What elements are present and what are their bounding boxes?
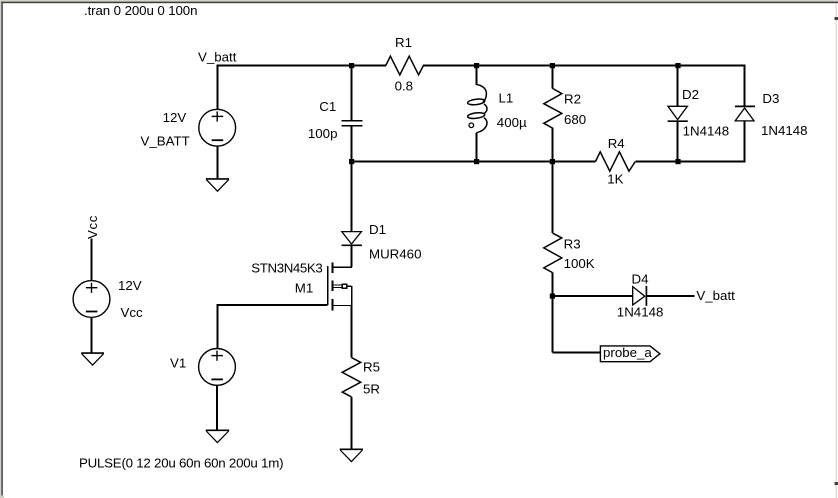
- svg-text:D1: D1: [369, 222, 386, 237]
- diode D1: [342, 162, 362, 268]
- svg-text:D3: D3: [762, 91, 779, 106]
- junction node at D2 bottom: [675, 159, 680, 164]
- wire V1 to ground: [216, 386, 218, 431]
- svg-text:probe_a: probe_a: [603, 345, 652, 360]
- svg-text:12V: 12V: [118, 278, 142, 293]
- voltage source Vcc: [73, 281, 110, 318]
- svg-text:R3: R3: [564, 236, 581, 251]
- svg-text:M1: M1: [295, 281, 313, 296]
- svg-text:R1: R1: [395, 35, 412, 50]
- voltage source V_BATT: [199, 109, 236, 146]
- window frame left gray strip: [0, 0, 1, 498]
- junction node at C1 bottom: [349, 159, 354, 164]
- window frame dark left border: [1, 2, 3, 496]
- svg-text:1N4148: 1N4148: [683, 124, 730, 139]
- scrollbar nub top: [835, 17, 838, 20]
- resistor R5 (vertical): [342, 358, 361, 450]
- window frame right gray separator: [836, 3, 837, 498]
- svg-text:V_BATT: V_BATT: [141, 133, 190, 148]
- wire Vcc to ground: [91, 318, 93, 354]
- diode D3 (pointing up): [735, 106, 755, 161]
- resistor R2 (vertical): [544, 66, 562, 162]
- resistor R3 (vertical): [544, 162, 562, 297]
- svg-text:1N4148: 1N4148: [617, 305, 664, 320]
- svg-text:.tran 0 200u 0 100n: .tran 0 200u 0 100n: [84, 3, 198, 18]
- svg-text:680: 680: [564, 112, 586, 127]
- net flag probe_a: [600, 346, 660, 362]
- wire R3 bottom to D4: [553, 295, 633, 297]
- svg-text:100K: 100K: [564, 256, 595, 271]
- scrollbar nub bottom: [835, 482, 838, 485]
- svg-text:R2: R2: [564, 91, 581, 106]
- svg-text:Vcc: Vcc: [85, 215, 100, 239]
- wire R3 junction down to probe: [553, 296, 601, 353]
- window frame dark top border: [1, 2, 838, 4]
- wire top rail y=65.5 from V_BATT to D3 corner: [217, 65, 746, 67]
- wire Vcc label to source: [91, 239, 93, 282]
- svg-text:5R: 5R: [363, 381, 380, 396]
- junction node at R2 top: [550, 63, 555, 68]
- svg-text:1K: 1K: [607, 172, 623, 187]
- ground under Vcc: [81, 353, 104, 365]
- svg-text:400µ: 400µ: [497, 115, 527, 130]
- diode D4 (pointing right): [633, 286, 695, 306]
- svg-text:D4: D4: [632, 272, 649, 287]
- junction node at L1 top: [474, 63, 479, 68]
- ground under V1: [206, 430, 230, 442]
- svg-text:1N4148: 1N4148: [761, 123, 808, 138]
- junction node at L1 bottom: [474, 159, 479, 164]
- svg-text:100p: 100p: [308, 126, 338, 141]
- svg-text:0.8: 0.8: [395, 78, 414, 93]
- nmos transistor M1: [328, 262, 352, 310]
- voltage source V1: [199, 349, 236, 386]
- svg-text:V_batt: V_batt: [198, 50, 237, 65]
- wire V_BATT to ground: [217, 146, 219, 179]
- svg-text:STN3N45K3: STN3N45K3: [251, 261, 322, 276]
- svg-text:V1: V1: [170, 355, 186, 370]
- wire bottom rail y=161.5: [352, 161, 746, 163]
- svg-text:Vcc: Vcc: [121, 305, 144, 320]
- capacitor C1: [342, 66, 363, 162]
- svg-text:C1: C1: [319, 99, 336, 114]
- resistor R1 (horizontal, top rail): [386, 56, 424, 75]
- ground under V_BATT: [206, 179, 229, 191]
- wire V_BATT vertical to top rail: [217, 66, 219, 110]
- svg-text:L1: L1: [499, 91, 514, 106]
- svg-text:D2: D2: [682, 87, 699, 102]
- svg-text:PULSE(0 12 20u 60n 60n 200u 1m: PULSE(0 12 20u 60n 60n 200u 1m): [79, 455, 284, 470]
- ground under R5: [340, 449, 363, 461]
- svg-text:R5: R5: [363, 360, 380, 375]
- svg-text:V_batt: V_batt: [696, 288, 735, 303]
- svg-text:R4: R4: [608, 136, 625, 151]
- window frame top gray strip: [0, 0, 838, 2]
- svg-text:MUR460: MUR460: [369, 246, 421, 261]
- junction node at R3 bottom: [550, 294, 555, 299]
- junction node at D2 top: [675, 63, 680, 68]
- junction node at C1 top: [349, 63, 354, 68]
- wire top rail corner down to D3: [744, 66, 746, 107]
- diode D2: [668, 66, 688, 162]
- inductor L1: [467, 66, 487, 162]
- window frame bottom gray strip: [0, 496, 4, 498]
- junction node at R2 bottom: [550, 159, 555, 164]
- wire M1 source to R5: [351, 306, 353, 358]
- resistor R4 (horizontal, bottom rail): [596, 152, 636, 171]
- wire gate of M1 to V1: [217, 305, 328, 349]
- svg-text:12V: 12V: [163, 110, 187, 125]
